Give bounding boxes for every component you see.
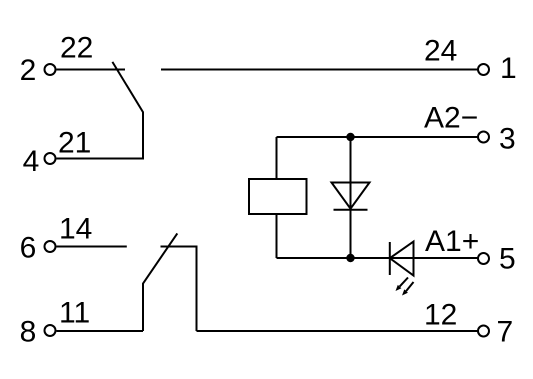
diode branch wire xyxy=(350,137,352,258)
coil branch top lead xyxy=(276,137,278,179)
LED arrowhead 1 xyxy=(396,285,402,291)
terminal 5 xyxy=(478,253,489,264)
terminal 4 xyxy=(45,153,56,164)
wire from terminal 6 xyxy=(57,246,127,248)
junction top xyxy=(346,133,354,141)
svg-text:3: 3 xyxy=(499,123,516,156)
wire from terminal 4 xyxy=(57,158,144,160)
svg-text:14: 14 xyxy=(59,213,92,246)
LED arrow 1 xyxy=(400,278,408,287)
terminal 6 xyxy=(45,241,56,252)
terminal 7 xyxy=(478,326,489,337)
coil branch bottom lead xyxy=(276,214,278,258)
svg-text:22: 22 xyxy=(60,32,93,65)
terminal 8 xyxy=(45,325,56,336)
LED arrow 2 xyxy=(406,282,413,291)
diode cathode bar xyxy=(334,209,368,211)
svg-text:24: 24 xyxy=(424,35,457,68)
svg-text:12: 12 xyxy=(424,299,457,332)
svg-text:2: 2 xyxy=(20,54,37,87)
node wire A1 xyxy=(277,257,478,259)
svg-text:A2−: A2− xyxy=(424,102,478,135)
LED cathode bar xyxy=(389,242,391,275)
diode V1 xyxy=(332,183,370,209)
svg-text:6: 6 xyxy=(20,232,37,265)
wire from terminal 2 xyxy=(57,69,126,71)
svg-text:4: 4 xyxy=(23,145,40,178)
relay coil K1 xyxy=(249,179,307,214)
junction bottom xyxy=(346,254,354,262)
svg-text:5: 5 xyxy=(499,243,516,276)
svg-text:21: 21 xyxy=(58,127,91,160)
fixed contact wire 12 xyxy=(161,247,197,332)
wire to terminal 1 xyxy=(161,69,478,71)
node wire A2 xyxy=(277,136,478,138)
svg-text:11: 11 xyxy=(59,297,90,330)
terminal 2 xyxy=(45,64,56,75)
svg-text:8: 8 xyxy=(20,316,37,349)
terminal 3 xyxy=(478,132,489,143)
contact blade 11-14 xyxy=(143,233,177,331)
svg-text:1: 1 xyxy=(500,52,517,85)
contact blade 21-22 xyxy=(112,62,143,160)
LED arrowhead 2 xyxy=(402,289,408,295)
wire to terminal 7 xyxy=(197,330,478,332)
svg-text:A1+: A1+ xyxy=(425,225,479,258)
wire from terminal 8 xyxy=(57,330,144,332)
LED triangle xyxy=(390,242,414,276)
svg-text:7: 7 xyxy=(497,316,514,349)
terminal 1 xyxy=(478,64,489,75)
